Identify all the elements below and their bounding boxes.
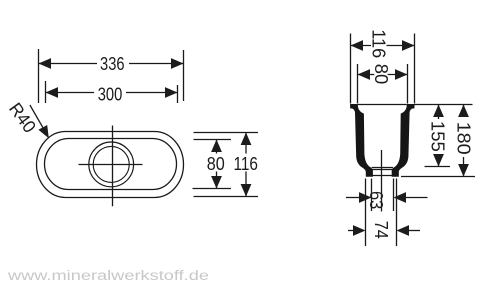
arrow 116 (top view) up xyxy=(241,133,252,146)
arrow 155 up xyxy=(433,105,444,118)
R40 leader arrowhead xyxy=(38,125,48,138)
dimension 80 (section) line xyxy=(358,74,375,76)
dimension 80 (top view) extension line top xyxy=(194,139,232,141)
arrow 80 (top view) down xyxy=(211,176,222,189)
basin cross-section right wall xyxy=(392,104,415,177)
dimension 74 tail line left xyxy=(348,230,353,232)
dimension 180 line xyxy=(463,105,465,118)
dimension 300 extension line left xyxy=(45,81,47,103)
arrow 63 right (points left) xyxy=(394,192,407,203)
arrow 74 left (points right) xyxy=(353,225,366,236)
dimension 80 (section) extension line left xyxy=(357,64,359,104)
outer basin outline (top view) xyxy=(37,132,184,198)
cross-section bottom extension line right xyxy=(401,176,475,178)
arrow 180 up xyxy=(458,105,469,118)
svg-text:116: 116 xyxy=(233,154,258,174)
dimension 80 (section) extension line right xyxy=(407,64,409,104)
dimension 116 (top view) extension line top xyxy=(194,132,259,134)
arrow 80 (section) left xyxy=(358,69,371,80)
arrow 116 (section) right xyxy=(402,40,415,51)
arrow 80 (top view) up xyxy=(211,140,222,153)
drain inner circle xyxy=(93,146,129,182)
dimension 116 (top view) line xyxy=(245,133,247,154)
dimension 155 bottom extension line xyxy=(425,166,451,168)
dimension 74 extension line right xyxy=(396,179,398,247)
arrow 155 down xyxy=(433,154,444,167)
arrow 180 down xyxy=(458,164,469,177)
svg-text:74: 74 xyxy=(371,221,391,239)
dimension 80 (top view) line xyxy=(216,140,218,154)
arrow 336 left xyxy=(39,58,52,69)
inner basin outline (top view) xyxy=(45,139,177,190)
cross-section rim extended line right xyxy=(415,104,473,106)
arrow 74 right (points left) xyxy=(397,225,410,236)
cross-section centerline xyxy=(381,150,383,212)
svg-text:155: 155 xyxy=(428,121,448,152)
arrow 300 left xyxy=(46,87,59,98)
dimension 116 (section) extension line right xyxy=(414,34,416,104)
dimension 63 extension line left xyxy=(371,179,373,212)
cross-section rim line xyxy=(358,104,407,106)
basin cross-section left wall xyxy=(350,104,373,177)
drain outer circle xyxy=(89,142,134,187)
cross-section throat line 1 xyxy=(372,167,393,169)
arrow 300 right xyxy=(165,87,178,98)
vertical centerline (top view) xyxy=(112,126,114,207)
cross-section throat line 2 xyxy=(372,169,393,171)
dimension 336 line xyxy=(39,63,98,65)
dimension 63 tail line left xyxy=(346,197,359,199)
svg-text:63: 63 xyxy=(366,191,386,209)
dimension 336 extension line right xyxy=(183,50,185,101)
dimension 155 line xyxy=(438,105,440,120)
arrow 336 right xyxy=(171,58,184,69)
arrow 63 left (points right) xyxy=(359,192,372,203)
dimension 63 tail line right xyxy=(406,197,428,199)
svg-text:www.mineralwerkstoff.de: www.mineralwerkstoff.de xyxy=(7,268,209,283)
svg-text:300: 300 xyxy=(98,85,123,105)
dimension 336 extension line left xyxy=(38,49,40,103)
svg-text:80: 80 xyxy=(371,64,391,85)
dimension 300 extension line right xyxy=(177,85,179,103)
R40 leader line xyxy=(30,105,43,127)
dimension 300 line xyxy=(46,92,95,94)
dimension 116 (top view) extension line bottom xyxy=(194,196,259,198)
svg-text:80: 80 xyxy=(207,154,225,174)
dimension 80 (top view) extension line bottom xyxy=(193,188,232,190)
arrow 116 (top view) down xyxy=(241,184,252,197)
horizontal centerline (top view) xyxy=(79,164,143,166)
arrow 116 (section) left xyxy=(351,40,364,51)
dimension 116 (section) extension line left xyxy=(350,34,352,104)
svg-text:336: 336 xyxy=(100,54,125,74)
dimension 63 extension line right xyxy=(393,179,395,212)
svg-text:R40: R40 xyxy=(5,99,40,137)
arrow 80 (section) right xyxy=(395,69,408,80)
svg-text:180: 180 xyxy=(453,122,473,155)
svg-text:116: 116 xyxy=(369,29,389,58)
dimension 74 tail line right xyxy=(409,230,420,232)
dimension 74 extension line left xyxy=(365,179,367,247)
cross-section bottom line between feet xyxy=(373,175,393,177)
dimension 116 (section) line xyxy=(351,45,372,47)
